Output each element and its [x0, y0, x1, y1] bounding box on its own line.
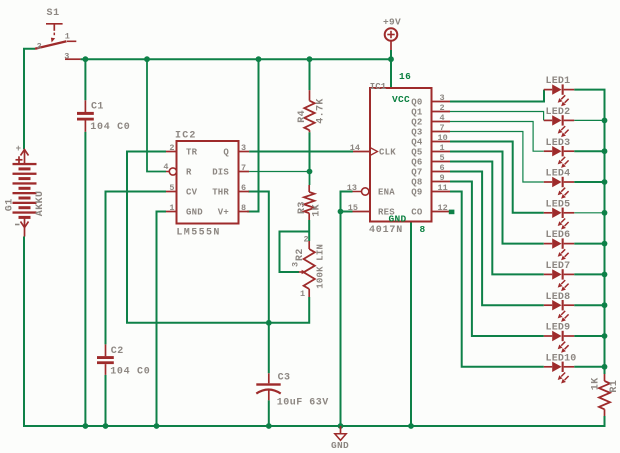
svg-text:RES: RES	[378, 208, 395, 218]
svg-text:LED10: LED10	[546, 353, 577, 364]
svg-text:7: 7	[241, 163, 246, 173]
svg-text:5: 5	[440, 153, 445, 163]
svg-text:CLK: CLK	[379, 148, 396, 158]
svg-text:2: 2	[304, 235, 309, 245]
svg-text:3: 3	[241, 143, 246, 153]
svg-text:13: 13	[347, 183, 357, 193]
svg-text:LED5: LED5	[546, 199, 571, 210]
svg-text:Q5: Q5	[411, 148, 422, 158]
svg-text:4.7K: 4.7K	[316, 98, 327, 124]
svg-text:6: 6	[440, 163, 445, 173]
svg-text:LED1: LED1	[546, 76, 571, 87]
svg-text:C3: C3	[278, 373, 291, 384]
svg-text:2: 2	[169, 143, 174, 153]
svg-text:1: 1	[169, 203, 174, 213]
svg-text:3: 3	[64, 52, 69, 62]
svg-text:12: 12	[438, 203, 448, 213]
svg-text:9: 9	[440, 173, 445, 183]
svg-text:V+: V+	[218, 208, 229, 218]
svg-text:LM555N: LM555N	[176, 228, 220, 239]
svg-text:10uF 63V: 10uF 63V	[277, 398, 329, 409]
svg-text:R1: R1	[609, 380, 620, 393]
svg-text:Q3: Q3	[411, 128, 422, 138]
svg-text:8: 8	[241, 203, 246, 213]
svg-text:IC1: IC1	[370, 82, 387, 92]
svg-text:GND: GND	[186, 208, 203, 218]
svg-text:R: R	[186, 168, 192, 178]
svg-text:15: 15	[348, 203, 358, 213]
svg-text:G1: G1	[4, 198, 15, 211]
svg-text:CO: CO	[411, 208, 423, 218]
svg-text:5: 5	[169, 183, 174, 193]
svg-text:1K: 1K	[591, 377, 602, 390]
svg-text:LED4: LED4	[546, 169, 571, 180]
svg-text:DIS: DIS	[212, 168, 229, 178]
svg-text:IC2: IC2	[175, 131, 197, 142]
svg-text:104 C0: 104 C0	[110, 367, 150, 378]
svg-text:104 C0: 104 C0	[90, 122, 130, 133]
svg-text:4017N: 4017N	[369, 225, 403, 236]
svg-text:TR: TR	[186, 148, 198, 158]
svg-text:14: 14	[350, 143, 360, 153]
svg-text:1K: 1K	[312, 204, 323, 217]
svg-text:VCC: VCC	[392, 94, 410, 105]
svg-text:LED2: LED2	[546, 107, 571, 118]
svg-text:2: 2	[440, 103, 445, 113]
svg-text:4: 4	[163, 162, 168, 172]
svg-text:LED3: LED3	[546, 138, 571, 149]
svg-text:1: 1	[300, 289, 305, 299]
svg-text:R4: R4	[297, 110, 308, 123]
svg-text:Q9: Q9	[411, 188, 422, 198]
svg-text:LED8: LED8	[546, 292, 571, 303]
svg-text:Q: Q	[223, 148, 229, 158]
svg-text:+9V: +9V	[383, 17, 401, 28]
svg-text:LED6: LED6	[546, 230, 571, 241]
svg-text:C2: C2	[111, 346, 124, 357]
svg-text:R2: R2	[295, 248, 306, 261]
svg-text:S1: S1	[47, 8, 60, 19]
svg-text:Q2: Q2	[411, 118, 422, 128]
svg-text:Q1: Q1	[411, 108, 423, 118]
svg-text:CV: CV	[186, 188, 198, 198]
svg-text:AKKU: AKKU	[35, 191, 46, 217]
svg-text:THR: THR	[212, 188, 229, 198]
svg-text:1: 1	[440, 143, 445, 153]
svg-text:+: +	[16, 144, 21, 154]
svg-text:C1: C1	[91, 102, 104, 113]
svg-text:Q0: Q0	[411, 98, 422, 108]
svg-text:7: 7	[440, 123, 445, 133]
svg-text:10: 10	[438, 133, 448, 143]
svg-text:ENA: ENA	[378, 188, 395, 198]
svg-text:Q6: Q6	[411, 158, 422, 168]
svg-text:3: 3	[291, 262, 301, 267]
svg-text:16: 16	[399, 71, 411, 82]
svg-text:8: 8	[420, 224, 426, 235]
svg-text:6: 6	[241, 183, 246, 193]
svg-text:GND: GND	[331, 440, 349, 451]
svg-text:Q8: Q8	[411, 178, 422, 188]
svg-text:1: 1	[65, 31, 70, 41]
svg-text:LED7: LED7	[546, 261, 571, 272]
svg-text:R3: R3	[297, 201, 308, 214]
svg-text:100K LIN: 100K LIN	[316, 244, 326, 289]
svg-text:Q4: Q4	[411, 138, 423, 148]
svg-text:Q7: Q7	[411, 168, 422, 178]
svg-text:3: 3	[440, 93, 445, 103]
svg-text:4: 4	[440, 113, 445, 123]
svg-text:LED9: LED9	[546, 323, 571, 334]
svg-text:2: 2	[37, 41, 42, 51]
svg-text:11: 11	[438, 183, 448, 193]
